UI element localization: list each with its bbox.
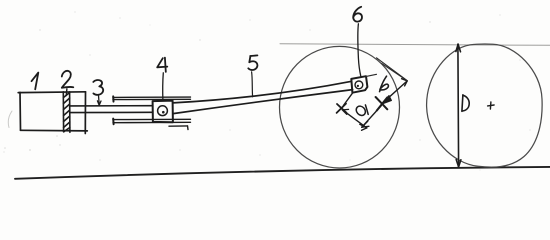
crank pin block 6 xyxy=(351,76,367,93)
paper speckles xyxy=(3,11,530,170)
digit 3 with arrow xyxy=(93,80,103,105)
dim line a left part xyxy=(343,111,367,131)
top construction line (pencil) xyxy=(280,44,550,46)
digit 2 xyxy=(62,71,74,96)
piston rod 3 xyxy=(70,106,153,113)
piston 2 (hatched) xyxy=(63,92,70,133)
connecting rod 5 xyxy=(173,81,353,113)
leader line for 6 xyxy=(358,24,361,76)
ground line xyxy=(15,167,550,179)
leader strokes to rim arrow xyxy=(366,58,407,81)
dim line a right part xyxy=(362,106,382,128)
dim line b xyxy=(382,79,408,105)
digit 4 xyxy=(157,58,167,72)
faint pencil arc at left margin xyxy=(8,111,12,128)
label b xyxy=(380,76,389,91)
crosshead guide top rail xyxy=(113,96,191,101)
label a xyxy=(354,104,368,117)
leader line for 5 xyxy=(252,72,253,97)
x mark wheel centre xyxy=(337,104,349,115)
digit 5 xyxy=(248,55,257,70)
crank arm xyxy=(343,93,352,106)
centre cross right wheel xyxy=(488,102,495,109)
digit 6 xyxy=(353,7,362,22)
dimension D vertical line xyxy=(456,44,461,167)
crosshead 4 xyxy=(153,101,173,123)
left wheel xyxy=(280,46,400,168)
right wheel xyxy=(427,44,543,167)
digit 1 xyxy=(32,73,39,90)
label D xyxy=(462,95,469,112)
crosshead guide bottom rail xyxy=(113,119,191,130)
cylinder body 1 xyxy=(18,92,87,134)
leader line for 4 xyxy=(162,73,165,101)
x mark b xyxy=(376,97,388,111)
